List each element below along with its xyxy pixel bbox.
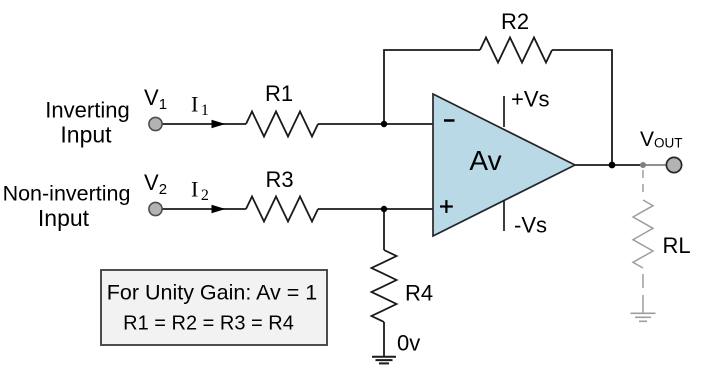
svg-text:0v: 0v [397,331,420,356]
svg-text:Av: Av [469,145,501,176]
svg-text:R1 = R2 = R3 = R4: R1 = R2 = R3 = R4 [123,313,294,335]
terminal V1 [149,117,162,130]
resistor R2 [480,38,552,63]
wire inverting input to op-amp [318,123,433,125]
svg-text:+Vs: +Vs [511,87,550,112]
svg-text:Input: Input [38,205,90,231]
current arrow I2 [212,205,226,213]
svg-text:OUT: OUT [654,136,683,151]
resistor R3 [246,197,318,222]
wire feedback left segment [384,50,480,124]
svg-text:RL: RL [663,233,691,258]
svg-text:-Vs: -Vs [514,213,547,238]
wire R4 bottom lead [383,322,385,357]
power pin -Vs [503,200,505,231]
wire non-inverting input lead [155,208,246,210]
svg-text:Input: Input [60,122,112,148]
svg-text:For Unity Gain: Av = 1: For Unity Gain: Av = 1 [107,281,318,305]
ground 0v [372,357,396,364]
svg-text:R2: R2 [501,9,529,34]
wire output [575,164,643,166]
svg-text:V: V [640,128,654,151]
op-amp inverting pin minus [444,119,455,122]
svg-text:R4: R4 [405,281,433,306]
resistor R1 [246,112,318,137]
svg-text:Inverting: Inverting [45,98,129,123]
annotation box For Unity Gain [101,270,327,345]
svg-text:Non-inverting: Non-inverting [3,182,131,206]
power pin +Vs [503,96,505,127]
node A feedback/inverting junction [381,121,387,127]
ground load [631,313,656,321]
wire load dashed lower [642,274,644,288]
resistor R4 [372,250,397,322]
node D load tap junction [640,162,646,168]
resistor RL [633,200,653,268]
wire load ground lead [642,295,644,313]
current arrow I1 [212,120,226,128]
wire feedback right segment [552,50,612,165]
terminal Vout [666,157,681,172]
node C output/feedback junction [609,162,616,169]
svg-text:R3: R3 [265,167,293,192]
wire load dashed upper [642,170,644,198]
op-amp non-inverting pin plus [440,200,453,213]
op-amp U1 [433,94,575,236]
wire R4 top lead [383,209,385,250]
wire non-inverting input to op-amp [318,208,433,210]
node B R4/non-inverting junction [381,206,387,212]
wire output to Vout terminal [643,164,666,166]
wire inverting input lead [155,123,246,125]
terminal V2 [149,202,162,215]
svg-text:R1: R1 [265,81,293,106]
